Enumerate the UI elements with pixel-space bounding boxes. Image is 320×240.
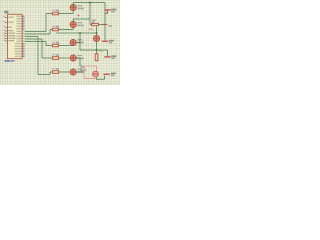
wire row4 feed: [42, 57, 70, 59]
wire riser x90 from top rail: [89, 3, 91, 25]
wire riser row2: [49, 30, 51, 35]
chip right-side pin numbers P0.x: [22, 15, 24, 29]
wire bottom run y74.5: [38, 74, 50, 76]
resistor R4b vertical below junction: [95, 50, 103, 61]
chip U1 reference label: [4, 11, 8, 14]
wire riser x80 y42.5-50: [79, 33, 81, 50]
chip right-side lower pin numbers: [22, 43, 24, 57]
LED D3b column2: [88, 28, 99, 41]
pin ALE (30): [3, 32, 15, 34]
LED D4: [70, 55, 84, 61]
pin P1.1 (2): [3, 40, 14, 42]
pin RST (9): [3, 26, 12, 28]
LED D3: [70, 39, 84, 45]
wire stub into LED D3b top and riser to R2b: [96, 26, 98, 35]
LED D6 pink column2 bottom: [93, 71, 99, 77]
junction x90 y2.5: [89, 2, 91, 4]
wire riser x42 down to row4: [41, 39, 43, 58]
wire pin P2.0 to riser: [25, 31, 46, 33]
wire LED D2 output up to x90 riser: [73, 19, 90, 21]
wire pin P2.2: [25, 36, 38, 38]
pin P1.0 (1): [3, 37, 15, 39]
wire pin P2.3: [25, 38, 42, 40]
wire jog up into row5: [49, 72, 51, 75]
chip right-side lower pin names P3.x: [15, 43, 22, 57]
pin PSEN (29): [3, 30, 13, 32]
power terminal T4: [104, 50, 116, 59]
wire rail row mid y33: [56, 32, 97, 34]
wire y50 run: [80, 49, 108, 51]
wire LED D6 bottom to ground run: [97, 76, 105, 80]
wire LED D3b bottom to junction y50: [96, 42, 98, 50]
LED D1: [70, 5, 84, 11]
wire top rail drop at x105: [104, 3, 106, 25]
wire LED D4 output to riser x80: [77, 58, 84, 66]
label near x80 bottom: [80, 67, 86, 71]
wire top rail: [73, 3, 105, 8]
power terminal T5 bottom right: [103, 73, 115, 77]
junction x96.5 y33: [96, 32, 98, 34]
resistor R3 row2: [52, 26, 59, 31]
wire riser x46 to row3: [45, 42, 47, 46]
wire LED D3 output to riser x80: [77, 42, 80, 44]
ground terminal row at x105: [102, 25, 114, 44]
pink highlighted wire rectangle bottom right: [84, 66, 97, 79]
chip right-side wired pin names: [16, 31, 21, 42]
pin XTAL1 (19): [3, 16, 14, 18]
power terminal VCC row1: [104, 9, 116, 14]
resistor R2 horizontal: [90, 19, 105, 25]
resistor R5 row3: [52, 42, 59, 47]
power tap marker at x105 y24.5: [103, 24, 113, 27]
LED D2: [70, 22, 84, 28]
chip U1 value label AT89C51: [5, 60, 15, 62]
pin XTAL2 (18): [3, 21, 14, 23]
chip right-side pin names P0.x: [16, 16, 21, 30]
chip right-side pin stubs P0.x (no wires): [22, 17, 25, 30]
chip right-side lower pin stubs P3.x: [22, 44, 25, 57]
wire riser row1: [45, 14, 47, 32]
wire pin P2.1: [25, 33, 50, 35]
wire row2 jog up to LED D2: [72, 28, 74, 30]
junction x96.5 y50: [96, 49, 98, 51]
resistor R6 row4: [52, 54, 59, 59]
LED D5: [70, 69, 84, 75]
pin EA (31): [3, 35, 15, 37]
schematic background grid: [0, 0, 120, 85]
chip U1 body: [8, 14, 23, 58]
wire row2 feed: [50, 29, 73, 31]
resistor R7 row5: [52, 68, 59, 73]
wire row3 feed: [46, 45, 73, 47]
wire row1 jog up to LED D1: [72, 11, 74, 14]
wire row5 feed: [50, 71, 70, 73]
junction x80 y33: [79, 32, 81, 34]
wire LED D5 output: [77, 71, 84, 73]
chip right-side wired pins P2.0-P2.4 numbers: [22, 30, 24, 41]
resistor R1: [52, 10, 59, 15]
wire riser x38 long down: [37, 37, 39, 75]
red marker above LED D2 output: [77, 15, 79, 17]
wire row1 feed: [46, 13, 73, 15]
wire pin P2.4: [25, 41, 46, 43]
